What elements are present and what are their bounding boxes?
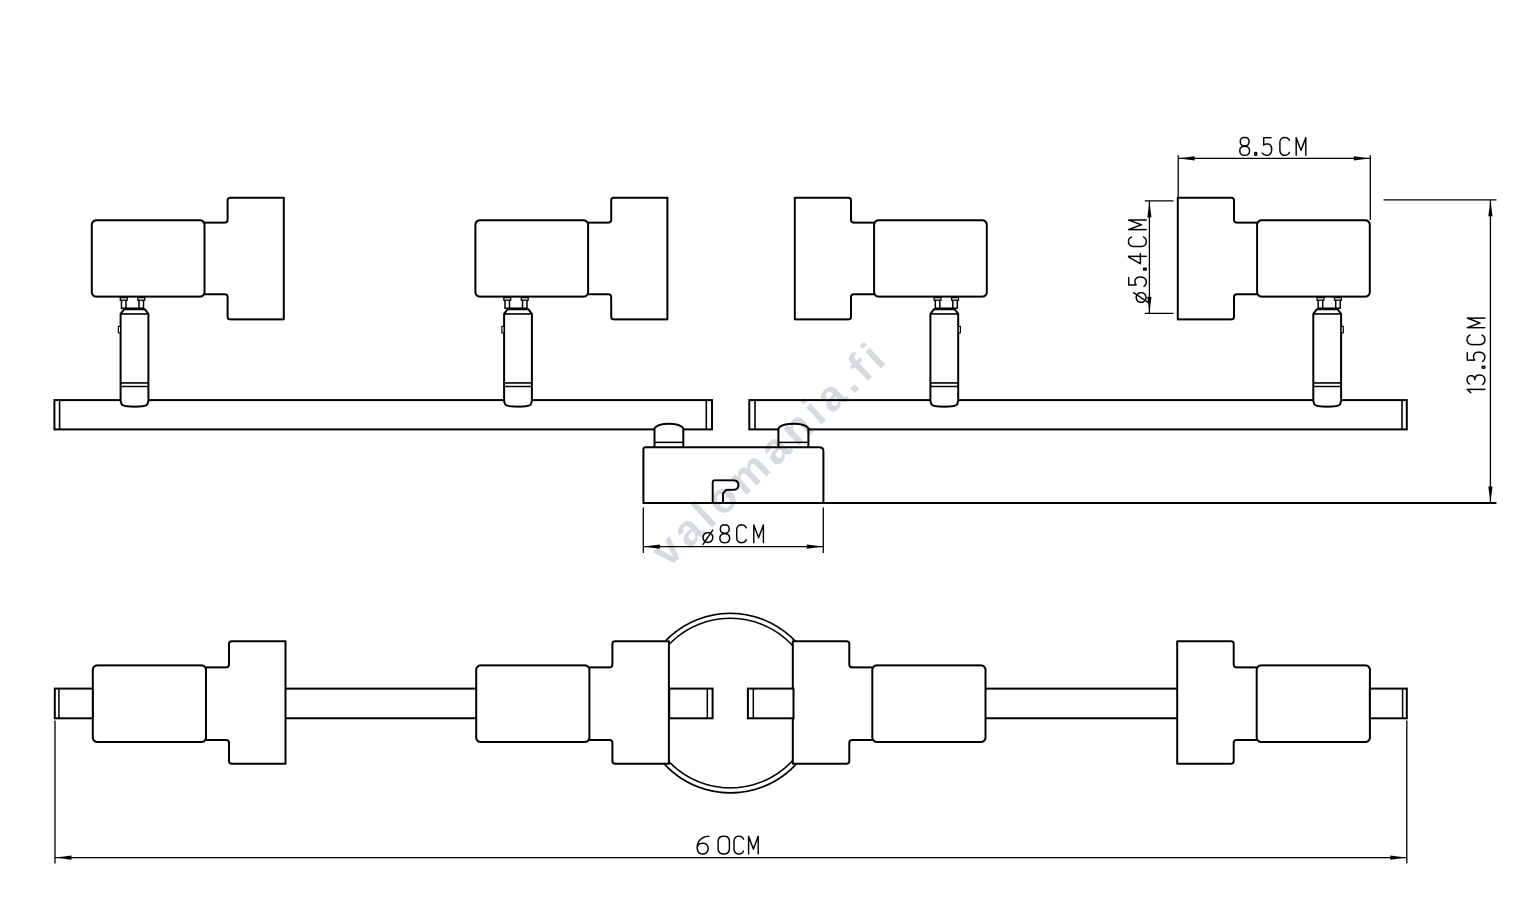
plan head 2 shade+body bbox=[589, 641, 669, 763]
canopy circle outer (plan view) bbox=[641, 613, 821, 793]
canopy bottom line extended to 13.5CM extension bbox=[643, 502, 1496, 504]
spot head 3 shade+body (side view) bbox=[795, 198, 874, 320]
spot head 3 pivot stem bbox=[935, 298, 940, 309]
plan head 1 shade+body bbox=[206, 641, 286, 763]
bar left end cap line bbox=[59, 400, 61, 429]
bar right left-end cap line bbox=[754, 400, 756, 429]
spot head 1 pivot stem bbox=[122, 298, 127, 309]
spot head 2 pivot stem bbox=[505, 298, 510, 309]
dimension text O8CM bbox=[703, 525, 763, 544]
spot head 4 pivot stem bbox=[1318, 298, 1323, 309]
plan bar end stub left bbox=[55, 689, 93, 719]
wall/ceiling bar left (side view) bbox=[54, 400, 712, 429]
dimension 13.5CM lines bbox=[1384, 199, 1497, 201]
plan head 3 shade+body bbox=[793, 641, 873, 763]
bar left right-end cap line bbox=[705, 400, 707, 429]
spot head 1 shade+body (side view) bbox=[205, 198, 284, 320]
plan head 4 shade+body bbox=[1177, 641, 1257, 763]
canopy circle inner (plan view) bbox=[646, 618, 816, 788]
canopy box (side view) bbox=[643, 447, 823, 503]
dimension text 8.5CM bbox=[1240, 138, 1306, 156]
dimension 8.5CM lines bbox=[1177, 155, 1179, 197]
plan bar strip shade1-body2 bbox=[286, 688, 477, 690]
cable hook symbol in canopy bbox=[713, 480, 739, 502]
bar right end cap line bbox=[1401, 400, 1403, 429]
spot head 4 shade+body (side view) bbox=[1178, 198, 1257, 320]
wall/ceiling bar right (side view) bbox=[749, 400, 1407, 429]
dimension O5.4CM lines bbox=[1145, 200, 1174, 202]
plan bar strip body3-shade4 bbox=[986, 688, 1178, 690]
dimension O8CM lines bbox=[642, 508, 644, 554]
canopy mount bump left bbox=[655, 424, 684, 448]
dimension text 60CM bbox=[697, 836, 758, 854]
dimension text O5.4CM bbox=[1129, 220, 1148, 302]
plan bar tab left bbox=[669, 689, 712, 719]
plan bar end stub right bbox=[1370, 689, 1407, 719]
svg-text:valomania.fi: valomania.fi bbox=[642, 331, 898, 576]
plan bar tab right bbox=[748, 689, 794, 719]
spot head 2 shade+body (side view) bbox=[588, 198, 667, 320]
canopy mount bump right bbox=[778, 424, 808, 448]
dimension 60CM lines bbox=[54, 721, 56, 864]
dimension text 13.5CM bbox=[1467, 318, 1485, 393]
